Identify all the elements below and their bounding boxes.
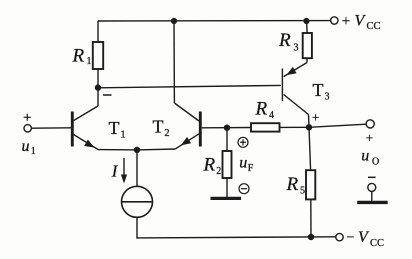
arrow current I [121,158,127,184]
wire reference circle to ground [371,191,373,200]
svg-text:R: R [286,174,299,195]
svg-text:I: I [111,161,119,180]
label R5 [286,174,306,197]
label uF minus circled [239,184,249,194]
transistor T3 [282,58,309,127]
label uO [361,148,379,168]
wire R1 bottom to node [97,69,99,88]
output reference circle [368,183,376,191]
svg-text:O: O [372,157,379,168]
resistor R5 [306,170,315,199]
transistor T1 [72,88,98,151]
label R3 [278,30,299,54]
node top rail to T2 collector junction [171,18,177,24]
label T3 [313,80,330,103]
label +Vcc [342,12,381,32]
label T2 [153,116,170,139]
label uF [239,154,254,174]
ground output reference [357,201,388,204]
node common emitter [134,147,140,153]
wire R2 to ground [226,178,228,198]
svg-text:+: + [312,110,319,125]
svg-text:+: + [342,14,350,30]
label T1 [109,118,126,140]
ground below R2 [211,197,242,200]
svg-text:+: + [23,110,31,126]
wire node to R2 [226,128,228,151]
minus sign marker at T3 input line [103,94,112,96]
output minus bar [368,176,376,178]
wire output node to terminal [309,124,366,127]
node R1 bottom / T1 collector [95,84,101,90]
label -Vcc [347,229,385,249]
svg-text:R: R [278,30,291,51]
svg-text:CC: CC [367,21,381,32]
wire common emitter to current source [136,150,138,186]
resistor R3 [303,33,312,58]
svg-text:T: T [313,80,324,100]
node bottom rail R5 junction [308,234,314,240]
label R4 [255,99,275,121]
wire R4 to output node [280,126,310,128]
svg-text:R: R [72,46,85,67]
wire T2 base to node [202,127,227,129]
svg-text:T: T [153,116,164,136]
wire R3 top [306,21,309,33]
label u1 [22,138,36,157]
svg-text:5: 5 [300,186,305,197]
wire top rail +Vcc [98,20,331,22]
svg-text:2: 2 [165,128,170,139]
wire current source to bottom rail [137,217,336,238]
svg-text:1: 1 [121,129,126,140]
svg-text:CC: CC [370,238,384,249]
svg-text:T: T [109,118,120,138]
terminal +Vcc circle [331,17,338,24]
svg-text:1: 1 [31,146,36,157]
node top rail to R3 junction [303,18,309,24]
terminal input circle [24,125,31,132]
label uF plus circled [238,137,248,147]
svg-text:R: R [203,155,216,176]
resistor R4 [251,123,280,131]
wire T1 emitter run [98,149,137,151]
transistor T2 [174,103,200,149]
wire node to R4 [227,127,251,129]
wire node to T3 base [98,85,281,87]
svg-text:F: F [248,163,254,174]
svg-text:2: 2 [216,166,221,177]
svg-text:+: + [366,130,373,145]
wire top rail down to T2 collector [173,21,175,103]
svg-text:R: R [255,99,268,120]
wire R5 to bottom rail [310,199,312,237]
terminal output circle [366,120,374,128]
node T2 base / R2 / R4 [224,125,230,131]
svg-text:−: − [347,230,355,245]
svg-text:u: u [239,154,247,171]
svg-text:3: 3 [294,43,299,54]
wire Vcc rail down to R1 [97,21,99,42]
svg-text:1: 1 [87,56,92,67]
svg-text:3: 3 [325,92,330,103]
svg-text:V: V [358,229,370,246]
current source I [122,186,153,217]
terminal -Vcc circle [336,233,343,240]
wire T1 base to input [32,127,72,129]
label R2 [203,155,222,178]
svg-text:u: u [22,138,30,155]
node output junction [306,124,312,130]
svg-text:4: 4 [269,110,274,121]
label R1 [72,46,92,67]
resistor R2 [223,151,232,178]
svg-text:V: V [355,12,367,29]
wire output node to R5 [309,127,311,170]
resistor R1 [93,42,103,69]
svg-text:u: u [361,148,369,165]
wire T2 emitter run [137,148,176,151]
